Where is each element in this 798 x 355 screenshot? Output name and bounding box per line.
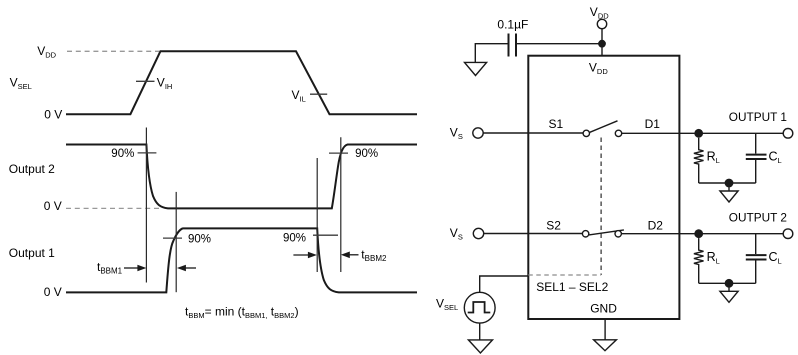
wire VSEL waveform xyxy=(66,51,417,114)
wire Output 1 waveform xyxy=(66,228,417,292)
ground (GND pin) xyxy=(594,340,617,351)
svg-text:D1: D1 xyxy=(645,117,661,131)
node junction RL-CL (row 1) xyxy=(725,179,734,188)
wire VS to S1 xyxy=(483,132,583,134)
resistor RL (row 1) xyxy=(694,138,704,183)
wire Output 2 waveform xyxy=(66,145,417,209)
node junction VDD xyxy=(598,40,606,48)
wire VSEL source to box xyxy=(480,276,529,292)
svg-text:90%: 90% xyxy=(355,148,378,160)
svg-text:0.1µF: 0.1µF xyxy=(497,17,528,31)
wire tBBM2 right arrow xyxy=(341,252,359,259)
ground (bypass cap) xyxy=(465,62,487,75)
capacitor 0.1uF xyxy=(509,34,517,57)
node VIL tick xyxy=(310,93,327,95)
node 90% tick (Output2 fall) xyxy=(138,152,157,154)
svg-text:SEL1 – SEL2: SEL1 – SEL2 xyxy=(536,280,608,294)
svg-text:90%: 90% xyxy=(283,233,306,245)
switch S2 xyxy=(582,230,624,237)
wire SEL dashed linkage horizontal xyxy=(528,274,601,276)
ground (VSEL source) xyxy=(468,340,492,353)
wire D1 to OUTPUT 1 xyxy=(622,132,784,134)
node junction RL-CL (row 2) xyxy=(725,279,734,288)
wire cap to ground xyxy=(475,44,508,63)
svg-text:Output 1: Output 1 xyxy=(9,246,55,260)
capacitor CL (row 1) xyxy=(746,133,767,183)
node VS terminal (row 2) xyxy=(473,228,483,238)
voltage source VSEL (pulse) xyxy=(464,292,495,323)
svg-text:OUTPUT 2: OUTPUT 2 xyxy=(729,211,787,225)
svg-text:0 V: 0 V xyxy=(44,199,62,213)
wire VS to S2 xyxy=(484,233,583,235)
svg-text:GND: GND xyxy=(590,301,617,315)
node junction D2 xyxy=(694,229,703,238)
resistor RL (row 2) xyxy=(694,238,704,283)
node OUTPUT 1 terminal xyxy=(783,129,793,139)
wire RL-CL bottom (row 2) xyxy=(699,282,756,284)
svg-text:0 V: 0 V xyxy=(44,285,62,299)
svg-text:S1: S1 xyxy=(549,117,564,131)
svg-text:D2: D2 xyxy=(648,218,664,232)
node 90% tick (Output1 fall) xyxy=(313,234,338,236)
node OUTPUT 2 terminal xyxy=(783,229,793,239)
wire SEL dashed linkage vertical xyxy=(600,138,602,276)
node 90% tick (Output1 rise) xyxy=(163,237,182,239)
wire VSEL to ground xyxy=(479,323,481,340)
svg-text:Output 2: Output 2 xyxy=(9,162,55,176)
wire D2 to OUTPUT 2 xyxy=(621,233,783,235)
switch S1 xyxy=(583,121,622,137)
wire GND pin to ground xyxy=(604,319,606,340)
op-amp U1 (analog switch box) xyxy=(528,56,679,319)
node marker line L3 (Output1 fall) xyxy=(316,158,318,272)
wire bypass cap to VDD junction xyxy=(516,43,602,45)
node VDD dashed reference line xyxy=(67,50,159,52)
ground (row 2 load) xyxy=(720,291,738,302)
node 90% tick (Output2 rise) xyxy=(329,152,348,154)
node VDD terminal xyxy=(597,19,606,28)
svg-text:OUTPUT 1: OUTPUT 1 xyxy=(729,110,787,124)
svg-text:0 V: 0 V xyxy=(44,107,62,121)
node 0V dashed reference (Output 2) xyxy=(66,207,160,209)
wire to ground (row 2) xyxy=(728,283,730,291)
node marker line L2 (Output1 rise 90%) xyxy=(175,192,177,292)
node junction D1 xyxy=(694,129,703,138)
node VIH tick xyxy=(136,80,155,82)
wire tBBM1 right arrow xyxy=(177,265,196,272)
capacitor CL (row 2) xyxy=(746,234,767,284)
ground (row 1 load) xyxy=(720,191,738,202)
wire RL-CL bottom (row 1) xyxy=(699,182,756,184)
wire tBBM2 left arrow xyxy=(293,252,317,259)
node marker line L4 (Output2 rise 90%) xyxy=(340,137,342,272)
wire tBBM1 left arrow xyxy=(124,265,146,272)
wire to ground (row 1) xyxy=(728,183,730,191)
node marker line L1 (Output2 fall) xyxy=(145,128,147,283)
svg-text:S2: S2 xyxy=(546,218,561,232)
svg-text:90%: 90% xyxy=(188,234,211,246)
wire VDD to box xyxy=(601,29,603,56)
node VS terminal (row 1) xyxy=(473,128,483,138)
svg-text:90%: 90% xyxy=(111,148,134,160)
